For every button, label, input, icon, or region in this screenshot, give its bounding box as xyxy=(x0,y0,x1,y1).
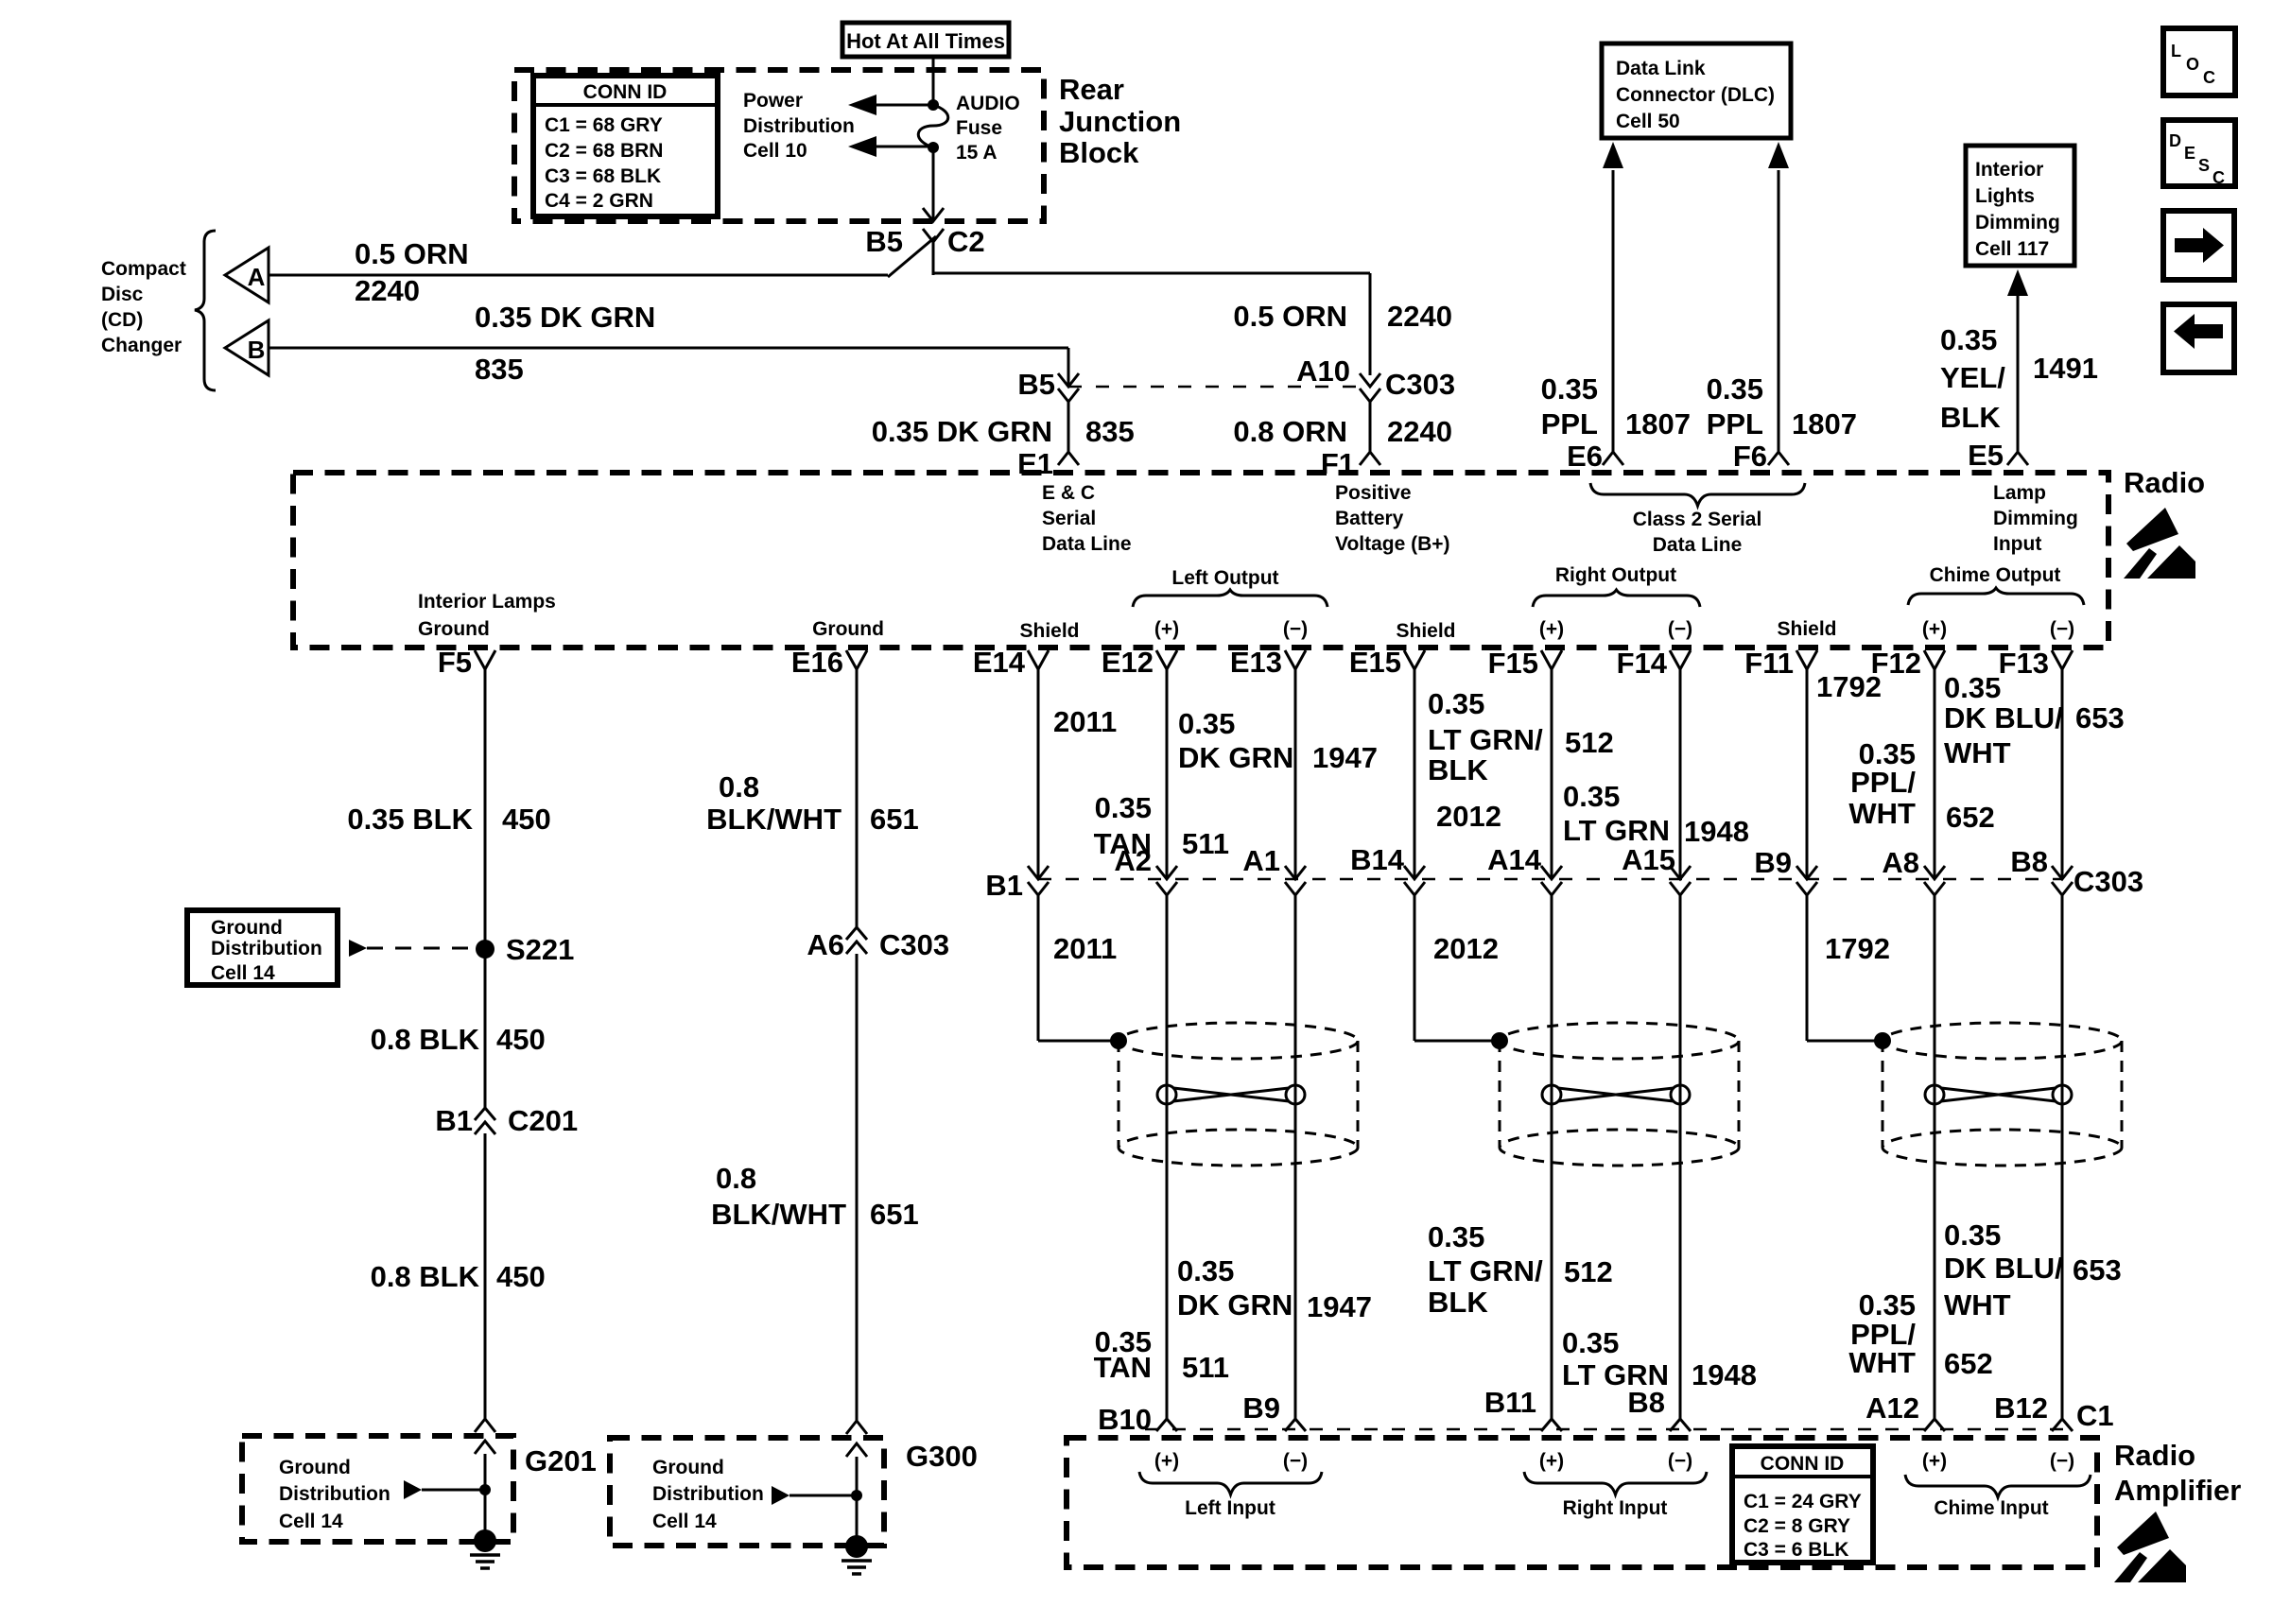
svg-text:1947: 1947 xyxy=(1312,741,1378,774)
svg-text:LT GRN: LT GRN xyxy=(1563,814,1670,847)
svg-text:C1 = 24 GRY: C1 = 24 GRY xyxy=(1744,1491,1862,1512)
svg-text:F15: F15 xyxy=(1488,647,1538,680)
svg-text:(−): (−) xyxy=(1283,1450,1308,1472)
svg-text:Changer: Changer xyxy=(101,335,182,356)
svg-text:Dimming: Dimming xyxy=(1993,508,2078,529)
svg-text:B1: B1 xyxy=(985,869,1023,902)
svg-text:Ground: Ground xyxy=(279,1457,351,1478)
svg-text:(−): (−) xyxy=(2050,1450,2074,1472)
svg-text:Shield: Shield xyxy=(1396,620,1455,642)
svg-text:Dimming: Dimming xyxy=(1975,212,2060,233)
svg-text:Cell 14: Cell 14 xyxy=(652,1511,717,1532)
svg-text:2011: 2011 xyxy=(1053,932,1117,965)
svg-text:DK GRN: DK GRN xyxy=(1178,741,1293,774)
svg-text:Junction: Junction xyxy=(1059,105,1181,138)
svg-text:Connector (DLC): Connector (DLC) xyxy=(1616,84,1775,106)
svg-text:2240: 2240 xyxy=(1387,300,1452,333)
svg-text:651: 651 xyxy=(870,1198,919,1231)
svg-text:0.8 BLK: 0.8 BLK xyxy=(371,1023,480,1056)
svg-text:DK BLU/: DK BLU/ xyxy=(1944,1252,2063,1285)
svg-text:WHT: WHT xyxy=(1944,1288,2011,1322)
svg-text:653: 653 xyxy=(2075,701,2125,734)
svg-text:450: 450 xyxy=(496,1260,546,1293)
svg-text:Left Input: Left Input xyxy=(1185,1497,1275,1519)
svg-text:PPL/: PPL/ xyxy=(1850,766,1916,799)
svg-text:1792: 1792 xyxy=(1825,932,1890,965)
svg-text:C303: C303 xyxy=(2073,865,2143,898)
svg-text:DK BLU/: DK BLU/ xyxy=(1944,701,2063,734)
svg-text:L: L xyxy=(2171,42,2181,60)
svg-text:1947: 1947 xyxy=(1307,1290,1372,1323)
svg-text:G300: G300 xyxy=(906,1440,978,1473)
svg-text:512: 512 xyxy=(1564,1255,1613,1288)
svg-text:Serial: Serial xyxy=(1042,508,1096,529)
svg-text:CONN ID: CONN ID xyxy=(583,81,668,103)
svg-text:2240: 2240 xyxy=(355,274,420,307)
svg-text:Chime Output: Chime Output xyxy=(1930,564,2061,586)
svg-text:Cell 10: Cell 10 xyxy=(743,140,807,162)
svg-text:DK GRN: DK GRN xyxy=(1177,1288,1293,1322)
svg-text:Distribution: Distribution xyxy=(279,1483,390,1505)
svg-text:Class 2 Serial: Class 2 Serial xyxy=(1633,509,1762,530)
svg-text:Distribution: Distribution xyxy=(743,115,855,137)
svg-text:Right Output: Right Output xyxy=(1555,564,1676,586)
svg-text:0.8 ORN: 0.8 ORN xyxy=(1233,415,1347,448)
svg-text:Ground: Ground xyxy=(418,618,490,640)
svg-text:Data Line: Data Line xyxy=(1042,533,1132,555)
svg-text:Cell 50: Cell 50 xyxy=(1616,111,1680,132)
svg-text:C2 = 8 GRY: C2 = 8 GRY xyxy=(1744,1515,1850,1537)
svg-text:A15: A15 xyxy=(1622,843,1675,876)
svg-text:Lamp: Lamp xyxy=(1993,482,2046,504)
svg-text:A: A xyxy=(248,263,266,291)
svg-text:Battery: Battery xyxy=(1335,508,1404,529)
svg-text:Cell 14: Cell 14 xyxy=(279,1511,343,1532)
svg-text:C201: C201 xyxy=(508,1104,578,1137)
svg-text:E: E xyxy=(2184,144,2195,163)
svg-text:B9: B9 xyxy=(1242,1391,1280,1425)
svg-text:Chime Input: Chime Input xyxy=(1934,1497,2048,1519)
svg-text:C3 = 68 BLK: C3 = 68 BLK xyxy=(545,165,661,187)
svg-text:Fuse: Fuse xyxy=(956,117,1002,139)
svg-text:B14: B14 xyxy=(1350,843,1405,876)
svg-text:835: 835 xyxy=(475,353,524,386)
svg-text:0.5 ORN: 0.5 ORN xyxy=(355,237,469,270)
svg-text:Power: Power xyxy=(743,90,803,112)
svg-text:512: 512 xyxy=(1565,726,1614,759)
svg-text:0.35: 0.35 xyxy=(1940,323,1997,356)
svg-text:C1: C1 xyxy=(2076,1399,2114,1432)
svg-text:0.8 BLK: 0.8 BLK xyxy=(371,1260,480,1293)
svg-text:O: O xyxy=(2186,55,2199,74)
svg-text:A1: A1 xyxy=(1242,844,1280,877)
svg-text:C2: C2 xyxy=(947,225,985,258)
svg-text:Data Line: Data Line xyxy=(1653,534,1743,556)
svg-text:1491: 1491 xyxy=(2033,352,2098,385)
svg-text:(−): (−) xyxy=(1668,618,1692,640)
svg-text:E5: E5 xyxy=(1968,439,2004,472)
svg-text:Lights: Lights xyxy=(1975,185,2035,207)
svg-text:Amplifier: Amplifier xyxy=(2114,1474,2241,1507)
svg-text:0.35: 0.35 xyxy=(1944,671,2001,704)
svg-text:(−): (−) xyxy=(1668,1450,1692,1472)
svg-text:Cell 117: Cell 117 xyxy=(1975,238,2049,260)
svg-text:2012: 2012 xyxy=(1436,800,1501,833)
svg-text:511: 511 xyxy=(1182,827,1229,860)
svg-text:Right Input: Right Input xyxy=(1563,1497,1668,1519)
svg-text:Distribution: Distribution xyxy=(652,1483,764,1505)
svg-text:C303: C303 xyxy=(1385,368,1455,401)
svg-text:Shield: Shield xyxy=(1777,618,1836,640)
svg-text:Radio: Radio xyxy=(2124,466,2205,499)
svg-text:0.35: 0.35 xyxy=(1428,1220,1484,1253)
svg-text:1807: 1807 xyxy=(1625,407,1691,441)
svg-text:A8: A8 xyxy=(1882,846,1919,879)
svg-text:(CD): (CD) xyxy=(101,309,143,331)
svg-text:(+): (+) xyxy=(1539,618,1564,640)
svg-text:(+): (+) xyxy=(1922,618,1947,640)
svg-text:Positive: Positive xyxy=(1335,482,1412,504)
svg-text:F11: F11 xyxy=(1744,647,1794,680)
svg-text:0.35: 0.35 xyxy=(1562,1326,1619,1359)
svg-text:BLK: BLK xyxy=(1428,1286,1488,1319)
svg-text:0.35: 0.35 xyxy=(1178,707,1235,740)
svg-text:0.35: 0.35 xyxy=(1563,780,1620,813)
svg-text:C: C xyxy=(2203,68,2215,87)
svg-text:0.35: 0.35 xyxy=(1944,1218,2001,1252)
svg-text:(+): (+) xyxy=(1154,1450,1179,1472)
svg-text:0.35: 0.35 xyxy=(1859,1288,1916,1322)
svg-text:0.35: 0.35 xyxy=(1095,791,1152,824)
svg-text:511: 511 xyxy=(1182,1351,1229,1384)
svg-text:B5: B5 xyxy=(865,225,903,258)
svg-text:F14: F14 xyxy=(1617,647,1668,680)
svg-text:450: 450 xyxy=(496,1023,546,1056)
svg-text:A2: A2 xyxy=(1114,844,1152,877)
svg-text:Ground: Ground xyxy=(652,1457,724,1478)
svg-text:Radio: Radio xyxy=(2114,1439,2195,1472)
svg-text:YEL/: YEL/ xyxy=(1940,361,2005,394)
svg-text:B8: B8 xyxy=(1627,1386,1665,1419)
svg-text:0.5 ORN: 0.5 ORN xyxy=(1233,300,1347,333)
svg-text:0.35 DK GRN: 0.35 DK GRN xyxy=(475,301,655,334)
svg-text:15 A: 15 A xyxy=(956,142,998,164)
svg-text:Ground: Ground xyxy=(211,917,283,939)
svg-text:G201: G201 xyxy=(525,1444,597,1477)
svg-text:0.35: 0.35 xyxy=(1707,372,1763,406)
svg-text:PPL: PPL xyxy=(1541,407,1598,441)
svg-text:Rear: Rear xyxy=(1059,73,1124,106)
svg-text:(−): (−) xyxy=(2050,618,2074,640)
svg-text:B1: B1 xyxy=(435,1104,473,1137)
svg-text:E13: E13 xyxy=(1230,646,1282,679)
svg-text:0.35 DK GRN: 0.35 DK GRN xyxy=(872,415,1052,448)
svg-text:CONN ID: CONN ID xyxy=(1761,1453,1845,1475)
svg-text:A14: A14 xyxy=(1487,843,1542,876)
svg-text:Input: Input xyxy=(1993,533,2041,555)
svg-text:0.8: 0.8 xyxy=(716,1162,756,1195)
svg-text:Compact: Compact xyxy=(101,258,186,280)
svg-text:C2 = 68 BRN: C2 = 68 BRN xyxy=(545,140,663,162)
svg-text:Data Link: Data Link xyxy=(1616,58,1706,79)
svg-text:E12: E12 xyxy=(1102,646,1154,679)
svg-text:F6: F6 xyxy=(1733,440,1767,473)
svg-text:Distribution: Distribution xyxy=(211,938,322,959)
svg-text:835: 835 xyxy=(1085,415,1135,448)
svg-text:651: 651 xyxy=(870,803,919,836)
svg-text:TAN: TAN xyxy=(1094,1351,1152,1384)
svg-text:B12: B12 xyxy=(1994,1391,2048,1425)
svg-text:C: C xyxy=(2212,168,2225,187)
svg-text:(+): (+) xyxy=(1922,1450,1947,1472)
svg-text:BLK/WHT: BLK/WHT xyxy=(706,803,842,836)
svg-text:AUDIO: AUDIO xyxy=(956,93,1020,114)
svg-text:(+): (+) xyxy=(1154,618,1179,640)
svg-text:2011: 2011 xyxy=(1053,705,1117,738)
svg-text:WHT: WHT xyxy=(1848,797,1916,830)
svg-text:Voltage (B+): Voltage (B+) xyxy=(1335,533,1450,555)
svg-text:E15: E15 xyxy=(1349,646,1401,679)
svg-text:B5: B5 xyxy=(1017,368,1055,401)
svg-text:Left Output: Left Output xyxy=(1171,567,1278,589)
svg-text:652: 652 xyxy=(1944,1347,1993,1380)
svg-text:E & C: E & C xyxy=(1042,482,1095,504)
svg-text:A12: A12 xyxy=(1865,1391,1919,1425)
svg-text:1807: 1807 xyxy=(1792,407,1857,441)
svg-text:0.35: 0.35 xyxy=(1541,372,1598,406)
svg-text:S221: S221 xyxy=(506,933,574,966)
svg-text:1792: 1792 xyxy=(1816,670,1882,703)
svg-text:B9: B9 xyxy=(1754,846,1792,879)
svg-text:A10: A10 xyxy=(1296,354,1350,388)
svg-text:C1 = 68 GRY: C1 = 68 GRY xyxy=(545,114,663,136)
svg-text:E16: E16 xyxy=(791,646,843,679)
svg-text:B10: B10 xyxy=(1098,1403,1152,1436)
svg-text:C303: C303 xyxy=(879,928,949,961)
svg-text:1948: 1948 xyxy=(1692,1358,1757,1391)
svg-text:Shield: Shield xyxy=(1019,620,1079,642)
svg-text:(+): (+) xyxy=(1539,1450,1564,1472)
svg-text:2012: 2012 xyxy=(1433,932,1499,965)
svg-text:0.35 BLK: 0.35 BLK xyxy=(347,803,473,836)
svg-text:B11: B11 xyxy=(1484,1386,1536,1419)
svg-text:PPL: PPL xyxy=(1707,407,1763,441)
svg-text:Interior: Interior xyxy=(1975,159,2043,181)
svg-text:Block: Block xyxy=(1059,136,1139,169)
svg-text:A6: A6 xyxy=(807,928,844,961)
svg-text:1948: 1948 xyxy=(1684,815,1749,848)
svg-text:BLK: BLK xyxy=(1940,401,2001,434)
svg-text:0.35: 0.35 xyxy=(1177,1254,1234,1287)
svg-text:E14: E14 xyxy=(973,646,1026,679)
svg-text:B8: B8 xyxy=(2010,845,2048,878)
svg-text:Interior Lamps: Interior Lamps xyxy=(418,591,556,613)
svg-text:652: 652 xyxy=(1946,801,1995,834)
svg-text:WHT: WHT xyxy=(1944,736,2011,769)
svg-text:0.8: 0.8 xyxy=(719,770,759,803)
svg-text:F13: F13 xyxy=(1999,647,2049,680)
svg-text:LT GRN/: LT GRN/ xyxy=(1428,723,1543,756)
svg-text:WHT: WHT xyxy=(1848,1346,1916,1379)
svg-text:BLK: BLK xyxy=(1428,753,1488,786)
svg-text:C3 = 6 BLK: C3 = 6 BLK xyxy=(1744,1539,1848,1561)
svg-text:(−): (−) xyxy=(1283,618,1308,640)
svg-text:E6: E6 xyxy=(1567,440,1603,473)
svg-text:Cell 14: Cell 14 xyxy=(211,962,275,984)
svg-text:C4 = 2 GRN: C4 = 2 GRN xyxy=(545,190,653,212)
svg-text:F5: F5 xyxy=(438,646,472,679)
svg-text:0.35: 0.35 xyxy=(1428,687,1484,720)
svg-text:Hot At All Times: Hot At All Times xyxy=(846,29,1005,53)
svg-text:2240: 2240 xyxy=(1387,415,1452,448)
svg-text:450: 450 xyxy=(502,803,551,836)
svg-text:D: D xyxy=(2169,131,2181,150)
svg-text:BLK/WHT: BLK/WHT xyxy=(711,1198,846,1231)
svg-text:653: 653 xyxy=(2073,1253,2122,1287)
svg-text:Disc: Disc xyxy=(101,284,144,305)
svg-text:S: S xyxy=(2198,156,2210,175)
svg-text:Ground: Ground xyxy=(812,618,884,640)
svg-text:LT GRN/: LT GRN/ xyxy=(1428,1254,1543,1287)
svg-text:B: B xyxy=(248,336,266,364)
